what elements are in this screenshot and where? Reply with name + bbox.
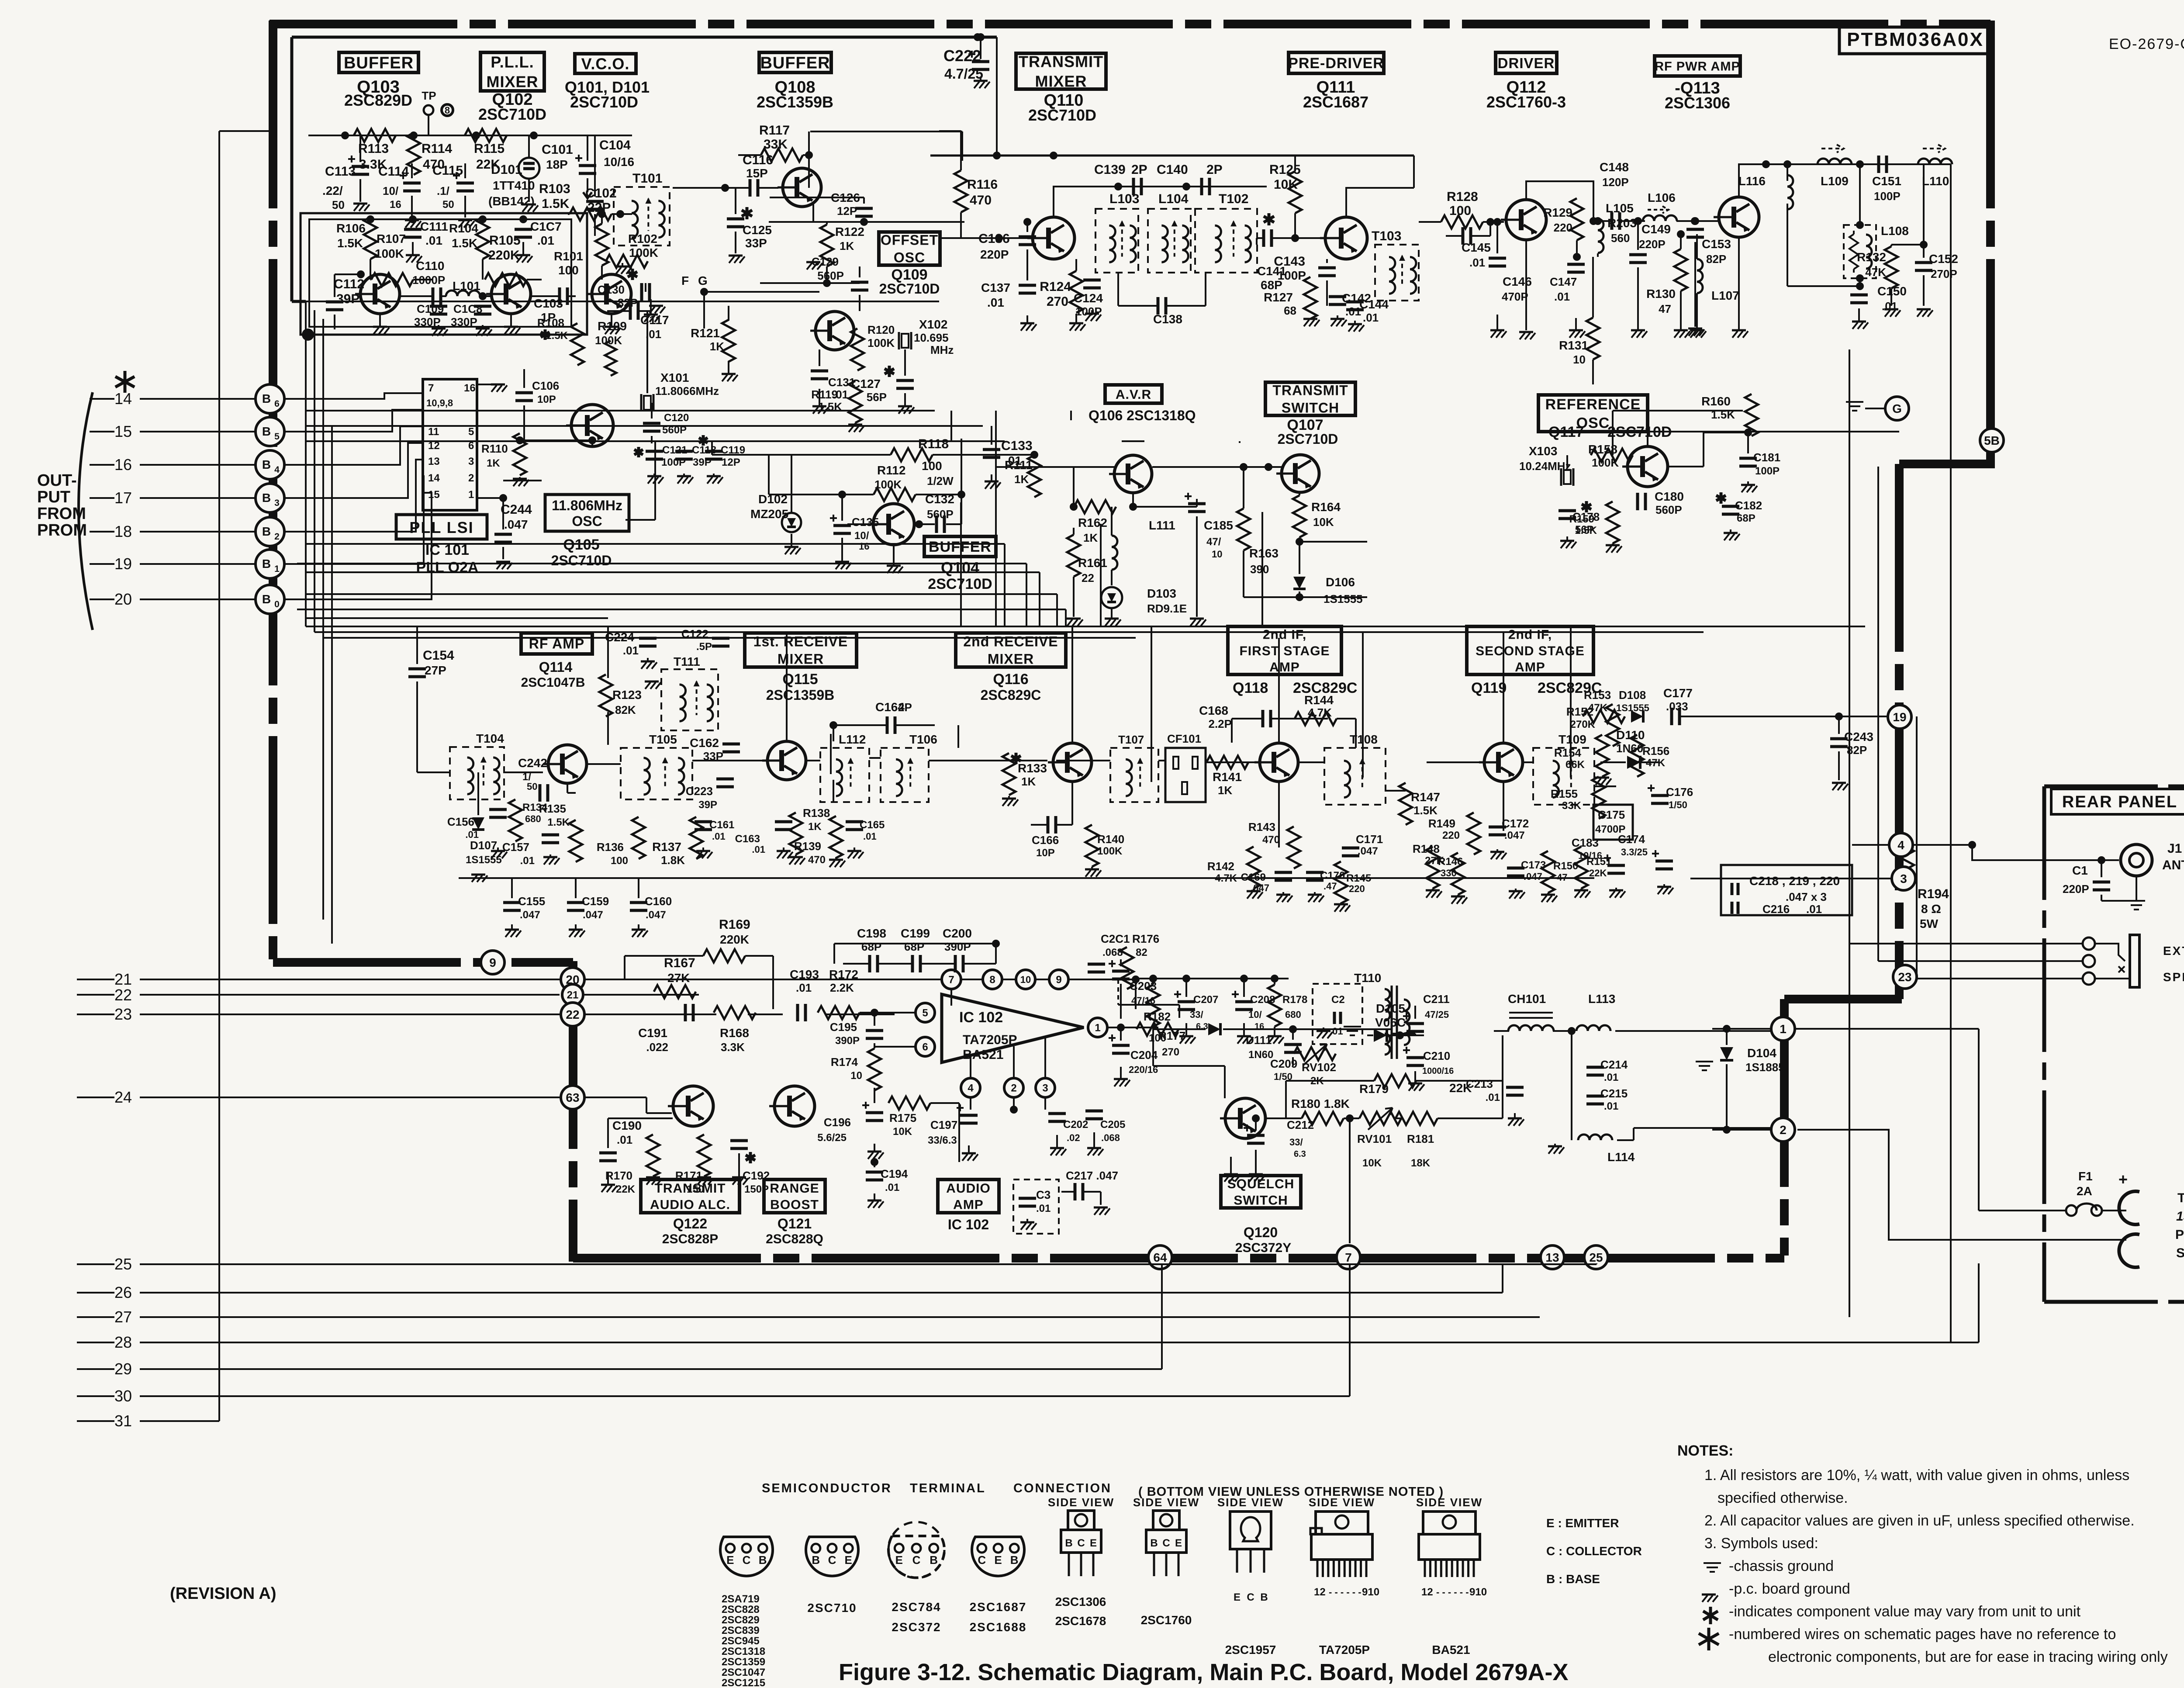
svg-text:Q117: Q117 [1548,424,1584,440]
svg-text:R137: R137 [652,840,681,854]
svg-text:T110: T110 [1354,971,1381,985]
fuse F1 [2066,1169,2128,1216]
svg-text:270P: 270P [1931,267,1957,280]
svg-text:13: 13 [428,456,440,467]
capacitor C194 [866,1158,908,1208]
wire PLL nested rect [301,213,587,335]
svg-text:1K: 1K [840,239,854,253]
svg-text:270: 270 [1162,1046,1179,1058]
svg-text:2nd IF,: 2nd IF, [1508,628,1552,642]
label TRANSMIT SWITCH Q107 [1265,382,1355,447]
svg-text:560: 560 [1611,232,1630,245]
capacitor C198 [857,927,886,972]
svg-text:L107: L107 [1711,289,1739,302]
capacitor C209 [1270,1045,1302,1082]
svg-text:Q116: Q116 [993,671,1028,688]
svg-text:AMP: AMP [1515,660,1545,675]
svg-text:C197: C197 [930,1118,957,1131]
resistor R182 [1137,1010,1178,1044]
capacitor C165 [846,819,885,858]
resistor R101 [554,210,608,280]
svg-text:C154: C154 [423,648,454,663]
label REAR PANEL box [2044,786,2184,1302]
svg-text:1.8K: 1.8K [661,854,685,867]
node 21 [562,984,583,1005]
node 2 [1771,1118,1795,1141]
label 2nd RECEIVE MIXER [956,633,1066,703]
svg-text:B : BASE: B : BASE [1546,1572,1600,1586]
svg-text:R180 1.8K: R180 1.8K [1291,1097,1350,1110]
svg-text:OSC: OSC [572,513,602,529]
svg-text:R127: R127 [1264,291,1293,304]
svg-text:.01: .01 [537,234,554,247]
svg-text:C122: C122 [681,627,708,640]
svg-text:R138: R138 [803,806,830,820]
svg-text:C195: C195 [830,1020,857,1034]
svg-text:220: 220 [1349,883,1365,894]
node pin3 [1036,1038,1055,1110]
svg-text:SEMICONDUCTOR: SEMICONDUCTOR [762,1481,892,1495]
svg-text:B: B [262,491,271,505]
transistor Q113 [1714,197,1759,237]
svg-text:PLL O2A: PLL O2A [416,559,479,576]
wire bus verticals [306,301,323,638]
svg-text:.047: .047 [583,909,603,921]
diode D101 [488,163,535,208]
svg-text:L110: L110 [1922,174,1949,188]
label OFFSET OSC [879,232,940,297]
svg-text:BA521: BA521 [963,1048,1003,1062]
svg-text:P.L.L.: P.L.L. [491,53,534,71]
svg-text:.01: .01 [863,831,877,842]
svg-text:C102: C102 [585,186,617,201]
capacitor C174 [1618,833,1673,894]
svg-text:R124: R124 [1040,280,1071,294]
svg-text:10K: 10K [1362,1157,1382,1169]
label IC 101 [416,542,479,576]
node 13 [1541,1245,1564,1269]
svg-text:29: 29 [114,1360,132,1378]
svg-text:Q121: Q121 [778,1216,812,1231]
wire prom line 15 [90,422,256,440]
capacitor C207 [1174,975,1218,1044]
svg-text:B: B [262,458,271,471]
node B3 [256,484,284,512]
transistor Q116 [1048,743,1092,782]
svg-text:C194: C194 [881,1167,908,1180]
svg-text:B: B [262,425,271,438]
svg-text:2SC1760-3: 2SC1760-3 [1486,93,1566,111]
svg-text:2SC1678: 2SC1678 [1055,1614,1106,1628]
capacitor C115 [432,163,474,228]
svg-text:1K: 1K [808,821,822,833]
svg-text:C152: C152 [1929,252,1958,266]
capacitor C173 [1507,859,1546,899]
capacitor C215 [1586,1087,1628,1112]
svg-text:X103: X103 [1529,444,1557,458]
wire avr bus [961,411,1268,467]
svg-text:1: 1 [274,564,280,574]
svg-text:.02: .02 [1067,1132,1080,1143]
svg-text:R160: R160 [1701,394,1731,408]
svg-text:C205: C205 [1100,1119,1125,1131]
svg-text:CONNECTION: CONNECTION [1013,1481,1112,1495]
resistor R105 [483,233,542,286]
svg-text:C224: C224 [605,630,634,644]
capacitor C133 [983,426,1033,489]
label SEMICONDUCTOR TERMINAL CONNECTION [762,1481,1112,1495]
svg-text:2nd IF,: 2nd IF, [1263,628,1306,642]
svg-text:63: 63 [566,1091,579,1104]
svg-text:2K: 2K [1310,1075,1324,1087]
svg-text:C207: C207 [1193,994,1218,1006]
resistor R172 [818,968,860,1019]
svg-text:C143: C143 [1274,254,1305,269]
svg-text:12: 12 [428,440,440,452]
svg-text:OFFSET: OFFSET [881,232,938,248]
svg-text:PUT: PUT [37,488,70,506]
svg-text:82P: 82P [1706,253,1726,266]
resistor R144 [1295,693,1356,748]
label note1b [1717,1490,1848,1506]
wire right border lower [1895,464,1904,999]
transistor Q106 [1074,455,1152,511]
svg-text:R104: R104 [449,221,478,235]
wire audio mid [1118,975,1179,1018]
svg-text:C172: C172 [1502,817,1529,830]
svg-text:100: 100 [922,459,942,473]
label BUFFER Q104 [924,536,996,592]
svg-text:.01: .01 [465,829,479,840]
svg-text:R167: R167 [664,956,695,970]
transformer T110 [1354,971,1410,1059]
capacitor C2 box [1313,984,1362,1044]
capacitor C135 [830,491,879,569]
capacitor C161 [695,819,734,858]
capacitor C106 [515,369,559,440]
svg-text:27P: 27P [425,664,446,677]
svg-text:1K: 1K [1014,473,1029,486]
svg-text:C218 , 219 , 220: C218 , 219 , 220 [1749,874,1840,888]
svg-text:64: 64 [1153,1251,1167,1264]
resistor R141 [1206,756,1248,797]
wire mid bus y1310 [306,572,1040,626]
svg-text:10,9,8: 10,9,8 [426,398,453,408]
label RF PWR AMP Q113 [1655,56,1740,112]
capacitor C183 [1572,836,1625,898]
node pin2 [1004,1046,1023,1114]
wire line23 long [584,1013,895,1015]
inductor L105 [1594,201,1637,257]
svg-text:TP: TP [422,89,436,102]
legend footprint TO92-4 [970,1537,1027,1634]
svg-text:2: 2 [1011,1083,1016,1094]
svg-text:D110: D110 [1616,728,1645,742]
svg-text:R162: R162 [1078,516,1107,529]
svg-text:.22/: .22/ [322,184,343,197]
svg-text:2SC1318: 2SC1318 [722,1646,765,1657]
capacitor C178 [1559,501,1600,548]
node 9 [481,951,505,974]
svg-text:50: 50 [442,199,454,211]
svg-text:68: 68 [1284,304,1296,317]
wire audio top mesh [834,940,1000,964]
svg-text:10: 10 [850,1070,862,1082]
svg-text:C156: C156 [447,815,474,828]
wire right verticals [1849,164,1951,1342]
svg-text:R131: R131 [1559,339,1588,352]
transformer T108 [1324,733,1386,805]
svg-text:17: 17 [114,489,132,507]
svg-text:R101: R101 [554,249,583,263]
label star [115,371,135,393]
wire vco-offset link [646,283,819,329]
svg-text:PLL LSI: PLL LSI [409,519,473,536]
wire squelch link [1136,979,1392,1098]
svg-text:47K: 47K [1588,702,1608,714]
capacitor C224 [605,630,657,669]
svg-text:C149: C149 [1641,222,1671,236]
svg-text:1S1555: 1S1555 [466,854,502,866]
node 64 [1148,1245,1172,1269]
svg-text:L111: L111 [1149,519,1175,532]
svg-text:15: 15 [428,489,440,501]
transformer T101 [614,171,670,246]
svg-text:electronic components, but are: electronic components, but are for ease … [1768,1649,2168,1665]
label EO-2679-C-114 [2109,36,2184,52]
capacitor C130 [598,269,650,309]
svg-text:47K: 47K [1646,757,1666,769]
svg-text:82P: 82P [618,296,638,309]
svg-text:.1/: .1/ [437,184,449,197]
svg-text:+: + [2118,1170,2128,1188]
resistor R171 [675,1135,713,1195]
label line21 [114,970,132,1106]
resistor R143 [1248,820,1300,868]
transformer T106 [881,733,937,802]
wire osc link [503,441,655,520]
svg-text:2nd RECEIVE: 2nd RECEIVE [963,634,1058,650]
svg-text:ANT: ANT [2162,858,2184,872]
svg-text:4700P: 4700P [1595,823,1625,835]
svg-text:2P: 2P [898,701,912,714]
svg-text:2SC828: 2SC828 [722,1604,760,1615]
svg-text:220P: 220P [2063,882,2089,896]
wire inner left rail [292,37,306,301]
node 4 [1852,833,2119,860]
svg-text:OUT-: OUT- [37,471,77,490]
svg-text:C175: C175 [1598,808,1625,821]
capacitor C112 [326,270,365,329]
wire mid bus y1415 [306,617,608,619]
resistor R169 [625,917,773,1009]
svg-text:T103: T103 [1372,229,1401,243]
svg-text:100P: 100P [1755,465,1780,477]
svg-text:.01: .01 [520,855,535,867]
legend footprint TO92-1 [720,1537,773,1576]
wire audio bus top [584,979,1136,1097]
transistor Q108 [778,168,821,207]
legend footprint list1 [722,1593,765,1688]
resistor R113 [354,129,396,172]
svg-text:MIXER: MIXER [988,651,1034,667]
wire q115 bus [831,626,1571,782]
label 1st RECEIVE MIXER [745,633,857,703]
node pin10 [1016,970,1049,989]
svg-text:E: E [994,1553,1002,1567]
svg-text:CF101: CF101 [1167,732,1201,745]
resistor R168 [714,1006,756,1054]
capacitor C141 [1257,213,1324,292]
svg-text:C144: C144 [1359,297,1389,311]
capacitor C192 [730,1141,770,1195]
svg-text:1/50: 1/50 [1669,799,1687,810]
svg-text:D101: D101 [491,163,522,177]
IC IC102 opamp [942,994,1084,1062]
svg-text:C159: C159 [582,895,609,908]
wire line28 tail [1978,1304,1980,1342]
svg-text:C214: C214 [1600,1058,1628,1071]
legend footprint 2SC1760 [1133,1496,1199,1627]
svg-text:2P: 2P [1131,163,1147,177]
svg-text:L103: L103 [1109,192,1139,206]
svg-text:3: 3 [274,498,280,508]
IC IC101 PLL LSI [423,379,507,510]
svg-text:C124: C124 [1074,291,1103,305]
wire C177 to 19 [1680,713,1888,720]
svg-text:26: 26 [114,1283,132,1301]
svg-text:RF PWR AMP: RF PWR AMP [1655,59,1740,73]
capacitor C108 [451,302,492,336]
svg-text:R153: R153 [1584,688,1611,702]
svg-text:33/6.3: 33/6.3 [928,1135,957,1146]
svg-text:R161: R161 [1078,556,1107,570]
wire pll bottom rail [302,329,587,341]
svg-text:1.5K: 1.5K [542,197,570,211]
svg-text:2SC828P: 2SC828P [662,1232,718,1246]
capacitor C180 [1638,490,1684,516]
node 23 [1893,965,1917,989]
transistor Q103 [355,274,400,314]
svg-text:.01: .01 [796,981,812,994]
capacitor C193 [790,968,819,1021]
svg-text:13.8 V DC: 13.8 V DC [2176,1209,2184,1224]
svg-text:L109: L109 [1821,174,1849,188]
resistor R123 [599,675,642,716]
svg-text:220: 220 [1442,830,1460,841]
wire prom line 31 [77,1412,219,1430]
svg-text:TERMINAL: TERMINAL [910,1481,986,1495]
capacitor C107 [515,220,562,263]
svg-text:5: 5 [274,432,280,442]
svg-text:R103: R103 [539,182,570,196]
svg-text:33K: 33K [764,137,788,152]
resistor R177 [1147,975,1185,1066]
diode D105 [1367,1002,1424,1042]
svg-text:C166: C166 [1032,834,1059,847]
svg-text:L116: L116 [1738,174,1766,188]
svg-text:B: B [1010,1553,1019,1567]
diode D102 [750,455,801,554]
svg-text:100P: 100P [1874,190,1901,203]
svg-text:10/: 10/ [383,184,398,197]
svg-text:C198: C198 [857,927,886,940]
capacitor C243 [1830,716,1873,790]
label REFERENCE OSC Q117 [1538,395,1672,440]
svg-text:12: 12 [1314,1586,1326,1598]
svg-text:C140: C140 [1157,163,1188,177]
svg-text:330P: 330P [414,315,441,329]
svg-text:C101: C101 [542,142,573,157]
svg-text:18K: 18K [1411,1157,1431,1169]
svg-text:2SC710D: 2SC710D [551,553,612,568]
resistor R116 [939,131,998,238]
svg-text:C113: C113 [325,164,356,179]
svg-text:.01: .01 [1806,903,1822,916]
wire audio left circles [77,979,560,1097]
wire B3 to IC [283,443,423,498]
svg-text:R148: R148 [1413,842,1440,855]
wire audio section left border [569,961,577,1262]
crystal X102 [899,318,954,356]
svg-text:10P: 10P [1036,847,1055,859]
svg-text:L113: L113 [1588,992,1615,1006]
svg-text:R170: R170 [605,1169,632,1182]
svg-text:1: 1 [1780,1022,1787,1036]
svg-text:15P: 15P [746,166,768,180]
svg-text:.047: .047 [1524,871,1542,882]
svg-text:12P: 12P [722,457,740,468]
wire prom line 17 [90,489,256,507]
svg-text:R144: R144 [1304,693,1334,707]
svg-text:C223: C223 [686,785,713,798]
svg-text:10/16: 10/16 [1578,850,1602,861]
diode D110 [1600,728,1660,769]
svg-text:RV101: RV101 [1357,1132,1392,1145]
capacitor C199 [901,927,930,972]
svg-text:270: 270 [1047,294,1068,309]
wire PLL box [309,219,571,327]
svg-text:2.2P: 2.2P [1209,717,1232,730]
svg-text:- - - - - -: - - - - - - [1436,1587,1469,1598]
svg-text:24: 24 [114,1088,132,1106]
svg-text:3: 3 [1900,872,1907,886]
svg-text:2SC829C: 2SC829C [981,687,1041,703]
svg-text:1N60: 1N60 [1248,1049,1273,1061]
svg-text:30: 30 [114,1387,132,1405]
inductor L107 [1690,234,1739,338]
svg-text:C147: C147 [1550,275,1577,288]
resistor R170 [605,1135,662,1195]
capacitor C205 [1085,1111,1125,1155]
svg-text:C104: C104 [599,138,631,152]
capacitor C110 [401,259,446,305]
svg-text:2SC1687: 2SC1687 [970,1600,1027,1614]
svg-text:19: 19 [1893,710,1906,724]
svg-text:47K: 47K [1865,266,1886,279]
label note4b [1768,1649,2168,1665]
capacitor C119 [699,435,745,484]
svg-text:220: 220 [1554,221,1572,234]
svg-text:.01: .01 [623,644,639,657]
svg-text:C177: C177 [1663,686,1693,700]
capacitor C168 [1199,704,1328,743]
svg-text:.01: .01 [1882,300,1897,313]
capacitor C202 [1048,1114,1088,1155]
svg-text:L112: L112 [839,733,866,746]
svg-text:2SC1359B: 2SC1359B [766,687,835,703]
capacitor C160 [630,878,672,937]
